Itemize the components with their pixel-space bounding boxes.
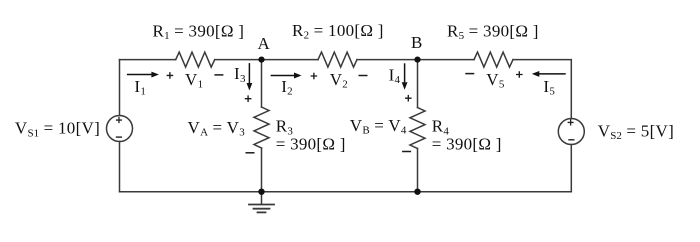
resistor R5 bbox=[474, 52, 513, 67]
ground bar 1 bbox=[249, 204, 274, 206]
left wire: top corner down to source VS1 bbox=[119, 60, 121, 116]
minus inside VS2 bbox=[568, 139, 574, 140]
wire R1 to node A bbox=[215, 59, 262, 61]
resistor R1 bbox=[176, 52, 215, 67]
current arrow I4 (points down) bbox=[404, 63, 406, 82]
ground junction dot bbox=[258, 189, 264, 195]
svg-text:= 390[Ω ]: = 390[Ω ] bbox=[276, 134, 346, 153]
resistor R3 bbox=[254, 107, 269, 148]
voltage source VS2 circle bbox=[558, 119, 584, 145]
ground stem bbox=[261, 192, 263, 204]
ground bar 2 bbox=[254, 208, 270, 210]
node A junction dot bbox=[258, 57, 264, 63]
plus of VA bbox=[245, 95, 252, 102]
minus of V5 bbox=[465, 73, 474, 75]
node B junction dot bbox=[414, 57, 420, 63]
minus of R4 bbox=[402, 151, 411, 153]
svg-text:= 390[Ω ]: = 390[Ω ] bbox=[432, 134, 502, 153]
minus of R3 bbox=[246, 152, 255, 154]
plus of V2 bbox=[311, 73, 318, 80]
plus of V5 bbox=[516, 71, 523, 78]
wire VS1 to bottom-left corner bbox=[119, 142, 121, 192]
wire VS2 to bottom-right corner bbox=[570, 145, 572, 192]
current arrow I3 (points down) bbox=[249, 63, 251, 83]
current arrow I2 bbox=[271, 75, 295, 77]
resistor R4 bbox=[410, 108, 425, 149]
minus of V2 bbox=[359, 75, 368, 77]
wire node A to R2 bbox=[262, 59, 319, 61]
wire R4 to bottom junction bbox=[417, 149, 419, 192]
current arrow I1 bbox=[127, 74, 152, 76]
wire R3 to ground node bbox=[261, 148, 263, 192]
plus of V1 bbox=[167, 72, 174, 79]
bottom wire bbox=[120, 191, 572, 193]
wire R2 to node B bbox=[357, 59, 418, 61]
wire top-left: corner to R1 bbox=[120, 59, 176, 61]
plus inside VS1 bbox=[116, 117, 122, 123]
minus inside VS1 bbox=[116, 136, 122, 137]
svg-text:VB = V4: VB = V4 bbox=[350, 116, 407, 137]
current arrow I5 (points left) bbox=[539, 73, 566, 75]
wire node A down to R3 bbox=[261, 60, 263, 107]
svg-text:A: A bbox=[258, 34, 271, 53]
wire node B down to R4 bbox=[417, 60, 419, 108]
plus of VB bbox=[405, 95, 412, 102]
minus of V1 bbox=[214, 74, 223, 76]
R4 bottom junction dot bbox=[414, 189, 420, 195]
wire R5 to top-right corner and down to source VS2 bbox=[513, 60, 571, 119]
wire node B to R5 bbox=[418, 59, 475, 61]
svg-text:B: B bbox=[411, 33, 423, 52]
svg-text:VS2 = 5[V]: VS2 = 5[V] bbox=[598, 121, 674, 142]
ground bar 3 bbox=[258, 211, 266, 213]
svg-text:VA = V3: VA = V3 bbox=[188, 118, 246, 139]
plus inside VS2 bbox=[568, 119, 574, 125]
voltage source VS1 circle bbox=[107, 116, 133, 142]
resistor R2 bbox=[318, 52, 357, 67]
